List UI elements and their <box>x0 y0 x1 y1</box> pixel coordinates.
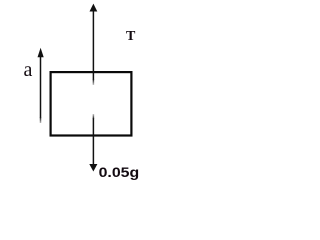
svg-text:0.05g: 0.05g <box>99 165 140 181</box>
svg-text:a: a <box>24 59 33 81</box>
svg-text:T: T <box>126 29 136 44</box>
